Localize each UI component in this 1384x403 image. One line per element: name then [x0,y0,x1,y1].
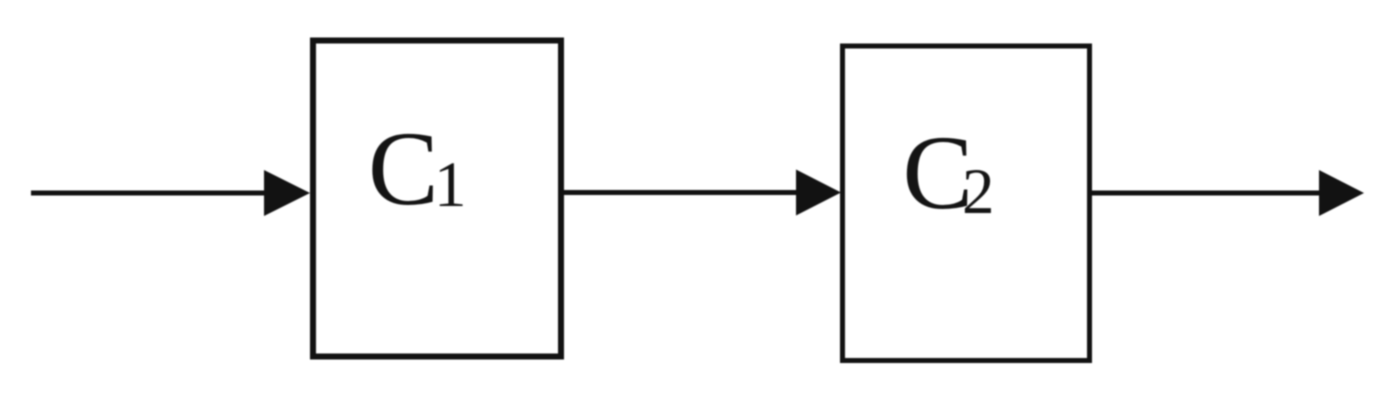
block C2 [843,46,1090,361]
label C2 [903,114,995,231]
block C1 [313,41,561,357]
label C1 [368,110,467,227]
arrowhead output [1319,170,1364,216]
wire: input arrow line into C1 [31,191,290,196]
arrowhead into C1 [264,170,310,216]
wire: output arrow line from C2 [1089,191,1343,196]
wire: arrow line C1 to C2 [561,190,820,195]
arrowhead into C2 [796,170,841,216]
